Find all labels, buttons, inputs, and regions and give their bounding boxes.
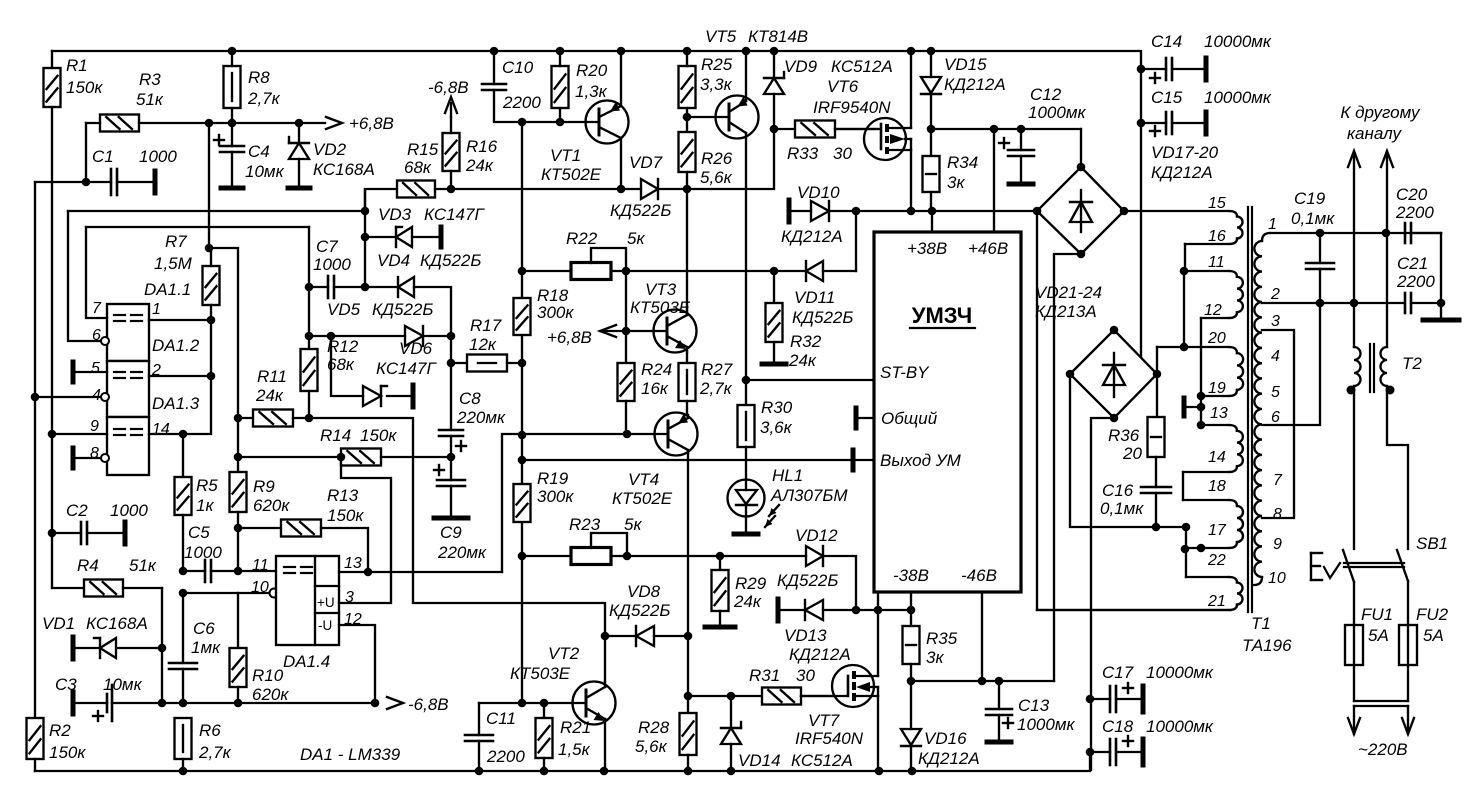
capacitor C4 [214,123,285,188]
svg-text:R25: R25 [701,55,733,74]
resistor R25 [679,51,733,117]
svg-text:-6,8В: -6,8В [408,695,449,714]
wire -38V pin [910,592,912,610]
transformer T1 core [1248,207,1252,612]
capacitor C7 [309,237,365,298]
svg-text:24к: 24к [255,386,284,405]
svg-text:Выход УМ: Выход УМ [880,451,962,470]
comparator DA1.4 [251,555,362,671]
wire [604,636,606,682]
node bridge2 top [1110,326,1119,335]
svg-text:1,5М: 1,5М [154,254,193,273]
node C14 [1137,65,1146,74]
svg-text:DA1.4: DA1.4 [283,652,330,671]
svg-text:R19: R19 [537,469,569,488]
svg-text:КС168А: КС168А [313,160,375,179]
svg-text:5к: 5к [624,515,642,534]
resistor R6 [175,718,232,771]
resistor R20 [552,51,608,122]
resistor R22 [522,229,774,280]
svg-text:5: 5 [1271,384,1280,401]
wire pin2 to pin14 row [149,376,211,434]
junction bottom rail R28 [684,767,693,776]
wire [479,702,522,704]
node R11 right [305,414,314,423]
node R7 top [205,244,214,253]
svg-text:5,6к: 5,6к [635,737,668,756]
svg-text:КД522Б: КД522Б [792,308,853,327]
svg-text:FU2: FU2 [1416,605,1449,624]
svg-text:11: 11 [252,557,269,574]
svg-text:R28: R28 [638,718,670,737]
winding T1 15-16 [1124,195,1243,271]
svg-text:C17: C17 [1102,663,1134,682]
svg-text:-U: -U [318,618,332,633]
svg-text:VD3: VD3 [378,205,412,224]
svg-text:R23: R23 [569,515,601,534]
node C10/R18 top [518,118,527,127]
node pin4 tap [31,393,40,402]
svg-text:R35: R35 [926,629,958,648]
svg-text:VT4: VT4 [628,470,659,489]
resistor R24 [618,331,673,434]
svg-text:3: 3 [1271,313,1280,330]
svg-text:10000мк: 10000мк [1146,717,1214,736]
diode VD11 [774,261,856,327]
svg-text:3к: 3к [926,648,944,667]
svg-text:68к: 68к [327,355,355,374]
wire rail to VD7 row [451,188,621,190]
wire +46V to bridge [931,128,1081,130]
terminal tap 13 [1184,396,1228,425]
wire R11 node to VD8 branch [309,418,605,636]
rectifier bridge VD21-24 upper [1035,167,1124,321]
svg-text:VD15: VD15 [944,55,987,74]
node ST-BY/R30 [742,376,751,385]
svg-text:Т2: Т2 [1402,354,1422,373]
svg-text:1,5к: 1,5к [558,740,591,759]
node VT2 base row [518,699,527,708]
resistor R8 [224,51,281,123]
svg-text:R33: R33 [787,144,819,163]
node C2 [48,529,57,538]
diode VD8 [605,582,688,646]
svg-text:DA1.1: DA1.1 [144,280,191,299]
capacitor C14 [1141,32,1272,83]
mosfet VT7 [795,611,878,771]
ground C21 [1423,233,1459,320]
junction bottom rail C11 [475,767,484,776]
junction [295,119,304,128]
resistor R13 [238,486,368,572]
svg-text:5А: 5А [1368,626,1389,645]
comparator DA1.3 [90,394,200,475]
svg-text:VT7: VT7 [808,711,840,730]
capacitor C2 [52,501,148,544]
node +38V pin [928,207,937,216]
node bridge1 ac1 [1033,207,1042,216]
svg-text:VD14: VD14 [738,751,781,770]
svg-text:R15: R15 [407,140,439,159]
resistor R23 [522,515,806,565]
svg-text:R4: R4 [77,556,99,575]
svg-text:VD8: VD8 [627,582,661,601]
node VD6 tap [327,332,336,341]
svg-text:1: 1 [152,301,161,318]
svg-text:13: 13 [344,555,362,572]
svg-text:КД522Б: КД522Б [777,571,838,590]
node pin1/R7 [207,316,216,325]
winding T1 22-21 [1037,552,1243,610]
svg-text:КД213А: КД213А [1035,302,1097,321]
wire secondary pin1 [1270,232,1441,234]
svg-text:30: 30 [796,666,815,685]
node C7 right [361,283,370,292]
fuse FU2 [1399,581,1449,701]
svg-text:R21: R21 [560,718,591,737]
diode VD13 [778,599,911,664]
node R23 left [518,552,527,561]
resistor R34 [923,129,979,211]
svg-text:R31: R31 [749,666,780,685]
svg-text:5: 5 [91,360,100,377]
node VT1 collector [617,185,626,194]
node [907,207,916,216]
node tap 13 [1197,403,1206,412]
wire -6.8V row [162,702,375,704]
resistor R4 [52,533,162,648]
svg-text:КД212А: КД212А [1151,163,1213,182]
svg-text:C6: C6 [193,619,215,638]
svg-text:13: 13 [1210,405,1228,422]
junction bottom rail VD16 [908,767,917,776]
node C13 top [995,677,1004,686]
svg-text:R11: R11 [257,367,287,386]
transistor VT1 [541,51,629,189]
node R9 bottom/C5 [234,567,243,576]
svg-text:2,7к: 2,7к [198,743,232,762]
svg-text:3к: 3к [947,173,965,192]
svg-text:3,3к: 3,3к [700,75,733,94]
junction [556,47,565,56]
pin 1 output wire [149,319,211,321]
svg-text:150к: 150к [360,426,397,445]
svg-text:5А: 5А [1423,626,1444,645]
resistor R9 [230,457,291,571]
svg-text:51к: 51к [129,556,157,575]
capacitor C21 [1396,254,1441,313]
svg-text:АЛ307БМ: АЛ307БМ [770,486,848,505]
wire VT6 source [910,150,912,211]
svg-text:КС147Г: КС147Г [424,205,485,224]
svg-text:R7: R7 [165,232,187,251]
svg-text:+6,8В: +6,8В [547,328,592,347]
wire bridge2 right to R36 [1156,347,1158,374]
node T2 right top [1382,229,1391,238]
node bridge1 - [1077,250,1086,259]
pin 4 input [35,393,109,401]
wire R3 node down to R7 [208,123,210,248]
svg-text:R17: R17 [470,316,502,335]
wire +38V pin [931,211,933,232]
svg-text:-46В: -46В [961,566,997,585]
node C6/R6 [179,699,188,708]
svg-text:DA1.3: DA1.3 [152,394,200,413]
node [1197,544,1206,553]
svg-text:220мк: 220мк [456,408,506,427]
node VD8 right [684,632,693,641]
pin 9 input wire [52,433,107,435]
diode VD15 [921,51,1006,129]
svg-text:12к: 12к [469,335,497,354]
node R29 top [716,552,725,561]
wire left vertical to R2 [34,182,36,718]
led HL1 [728,460,849,534]
node VD9/R33 [770,125,779,134]
capacitor C10 [482,51,560,122]
winding T1 11-12 [1184,254,1243,396]
svg-text:КД522Б: КД522Б [372,300,433,319]
node R17 left [447,359,456,368]
svg-text:КС168А: КС168А [86,614,148,633]
node -U [371,699,380,708]
svg-text:R16: R16 [466,137,498,156]
transistor VT3 [626,280,697,353]
capacitor C19 [1291,189,1335,303]
wire VT6 drain [910,51,912,128]
svg-text:VD7: VD7 [629,153,663,172]
svg-text:К другому: К другому [1340,103,1421,122]
svg-text:1000мк: 1000мк [1017,715,1075,734]
svg-text:9: 9 [90,418,99,435]
svg-text:24к: 24к [465,156,494,175]
svg-text:C7: C7 [316,237,338,256]
node VT3 base [622,327,631,336]
svg-text:VD17-20: VD17-20 [1151,143,1219,162]
node R19 top [518,456,527,465]
svg-text:220мк: 220мк [437,543,487,562]
svg-text:+38В: +38В [907,239,947,258]
node R23 tap [623,552,632,561]
svg-text:2200: 2200 [502,93,541,112]
svg-text:24к: 24к [788,351,817,370]
capacitor C5 [183,523,276,582]
svg-text:VT3: VT3 [645,280,677,299]
svg-text:R30: R30 [761,398,793,417]
zener VD3 [365,205,485,247]
wire [1183,271,1185,347]
svg-text:C2: C2 [66,501,88,520]
svg-text:R14: R14 [320,426,351,445]
resistor R21 [536,703,592,771]
svg-text:ST-BY: ST-BY [880,363,930,382]
svg-text:-38В: -38В [893,566,929,585]
svg-text:C14: C14 [1151,32,1182,51]
svg-text:14: 14 [152,421,170,438]
node R25/R26 [683,113,692,122]
capacitor C18 [1090,717,1214,765]
svg-text:16: 16 [1208,228,1226,245]
capacitor C6 [169,593,221,703]
svg-text:VT1: VT1 [550,146,581,165]
svg-text:КД212А: КД212А [918,749,980,768]
wire +46V pin down [993,129,995,232]
svg-text:1мк: 1мк [191,638,221,657]
svg-text:VD11: VD11 [794,288,835,307]
resistor R5 [175,434,219,571]
junction bottom rail R21 [540,767,549,776]
wire [308,227,310,336]
wire bridge2 left down [1070,374,1186,527]
net +6,8В [326,114,394,133]
svg-text:КД212А: КД212А [789,645,851,664]
svg-text:1000: 1000 [110,501,148,520]
node pin9 [48,430,57,439]
wire -46V row [911,680,1054,682]
svg-text:R2: R2 [49,721,71,740]
zener VD6 [331,336,437,407]
svg-text:1000мк: 1000мк [1028,103,1086,122]
svg-text:VD4: VD4 [377,251,410,270]
capacitor C13 [986,681,1075,742]
svg-text:~220В: ~220В [1358,740,1408,759]
zener VD14 [721,696,853,771]
node VD3 top [361,207,370,216]
zener VD9 [764,51,893,129]
junction bottom rail VD14 [727,767,736,776]
svg-text:C5: C5 [188,523,210,542]
wire rail up to VD9 [746,129,774,189]
wire bottom rail [35,752,1090,771]
node R26 bottom [683,185,692,194]
resistor R19 [514,469,575,522]
pin 8 input terminal [73,448,109,468]
label T1 [1242,614,1292,655]
svg-text:R10: R10 [252,666,284,685]
wire R22 tap down [625,271,627,331]
svg-text:КД212А: КД212А [944,75,1006,94]
svg-text:20: 20 [1122,444,1142,463]
junction [205,119,214,128]
svg-text:DA1 - LM339: DA1 - LM339 [300,745,401,764]
junction [228,119,237,128]
svg-text:VD10: VD10 [797,183,840,202]
svg-text:10мк: 10мк [103,675,143,694]
svg-text:R6: R6 [199,721,221,740]
svg-text:VT6: VT6 [827,77,859,96]
capacitor C9 [434,457,487,562]
svg-text:R9: R9 [253,477,275,496]
node pin10 row [179,589,188,598]
svg-text:КС147Г: КС147Г [376,359,437,378]
node VT4-base branch [518,431,527,440]
svg-text:1: 1 [1268,216,1277,233]
svg-text:VD12: VD12 [795,526,838,545]
svg-text:DA1.2: DA1.2 [152,336,200,355]
pin 12 -U wire [339,625,375,703]
node +46V pin [990,125,999,134]
wire bridge1 minus [1054,254,1081,681]
terminal Общий [856,408,874,428]
net к другому каналу [1340,103,1421,347]
wire R1 to pin9 [51,183,53,434]
node C21 right [1437,299,1446,308]
svg-text:КД522Б: КД522Б [609,601,670,620]
svg-text:0,1мк: 0,1мк [1291,209,1335,228]
svg-text:R12: R12 [327,337,359,356]
net -6,8В top arrow [428,78,469,117]
terminal Выход УМ [853,450,874,470]
wire [237,418,239,457]
wire 17-22 link [1186,527,1201,577]
node bridge2 left [1066,370,1075,379]
node VD1/R4 [158,644,167,653]
svg-text:R36: R36 [1108,426,1140,445]
junction bottom rail VT7 s [875,767,884,776]
node VD10 out [852,207,861,216]
wire bridge1 ac1 down [1037,211,1230,610]
node VD3 [361,233,370,242]
svg-text:FU1: FU1 [1361,605,1393,624]
pin 5 input terminal [73,362,107,382]
node VD5 left [305,332,314,341]
svg-text:R26: R26 [701,149,733,168]
net ~220В [1348,701,1414,759]
resistor R2 [27,718,87,771]
junction [770,47,779,56]
pin 6 inverting input circle [101,337,109,345]
svg-text:R34: R34 [947,153,978,172]
resistor R36 [1108,374,1165,487]
capacitor C8 [439,336,506,457]
node R20 bottom [556,118,565,127]
node [1182,523,1191,532]
svg-text:C21: C21 [1397,254,1428,273]
wire [687,636,689,696]
capacitor C12 [999,85,1086,184]
svg-text:КД522Б: КД522Б [420,251,481,270]
symbol E-check [1311,553,1340,580]
diode VD4 [365,251,481,336]
svg-text:620к: 620к [253,496,290,515]
svg-text:20: 20 [1207,330,1226,347]
svg-text:VD2: VD2 [313,140,347,159]
wire DA1.1 feedback [86,226,309,228]
svg-text:КТ502Е: КТ502Е [612,489,673,508]
resistor R30 [738,380,793,460]
transistor VT2 [510,644,616,771]
svg-text:C3: C3 [55,675,77,694]
capacitor C20 [1395,185,1441,243]
svg-text:300к: 300к [537,303,574,322]
node C18 [1086,748,1095,757]
wire to pin7 [86,227,107,318]
svg-text:150к: 150к [49,743,86,762]
svg-text:6: 6 [1271,409,1280,426]
svg-text:VT5: VT5 [705,27,737,46]
svg-text:VD5: VD5 [327,300,361,319]
svg-text:C9: C9 [440,523,462,542]
svg-text:ТА196: ТА196 [1242,636,1292,655]
diode VD7 [610,153,687,220]
node C7 left [305,283,314,292]
svg-text:+6,8В: +6,8В [349,114,394,133]
resistor R18 [514,286,575,335]
wire secondary tap 3-4 [1262,330,1294,518]
svg-text:2: 2 [1270,286,1280,303]
node VT7 drain [874,606,883,615]
node R10 bottom [234,699,243,708]
